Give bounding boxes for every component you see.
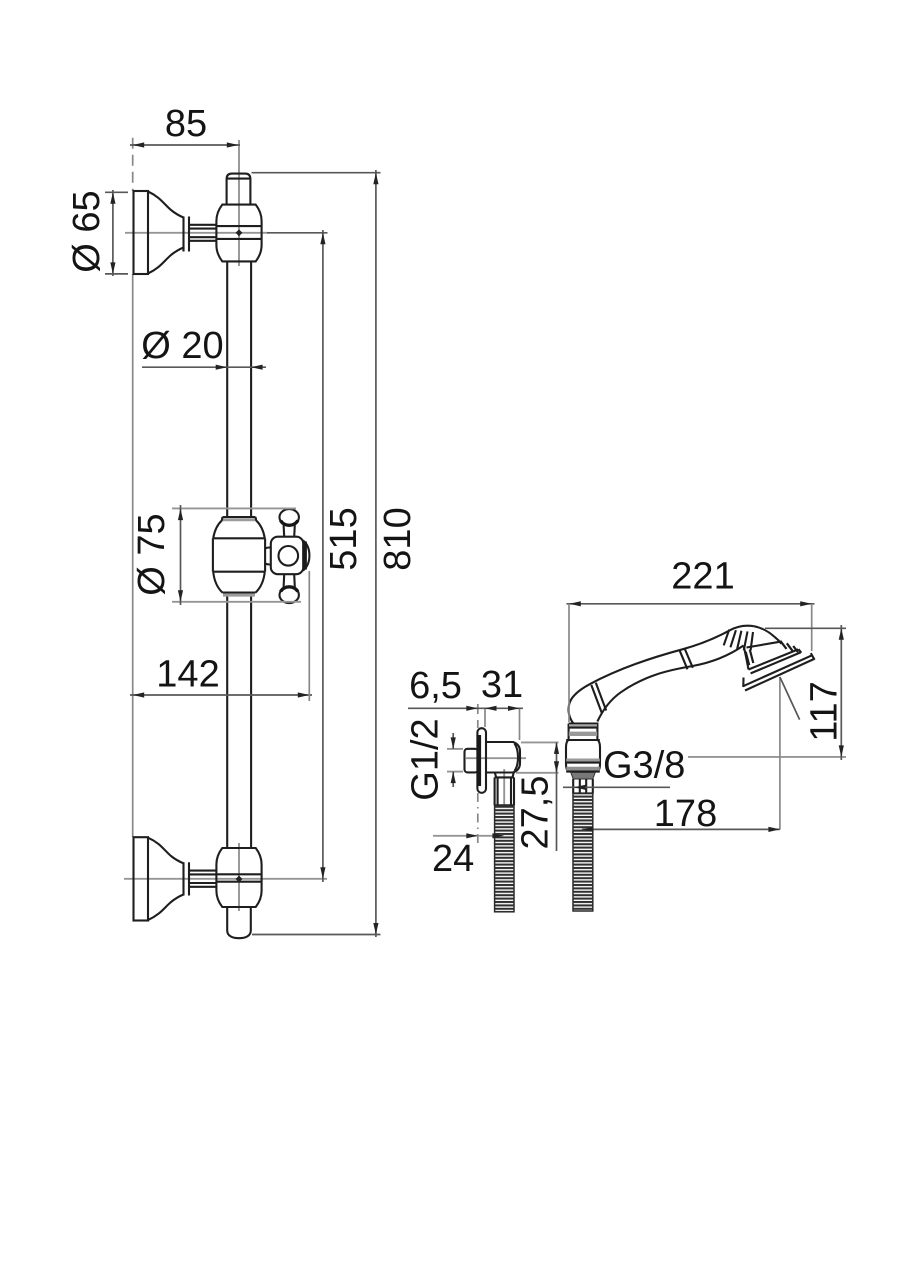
svg-text:515: 515	[323, 507, 365, 570]
svg-text:Ø 20: Ø 20	[141, 325, 223, 367]
svg-text:6,5: 6,5	[409, 665, 462, 707]
svg-text:24: 24	[432, 838, 474, 880]
svg-text:Ø 65: Ø 65	[66, 190, 108, 272]
svg-text:Ø 75: Ø 75	[131, 513, 173, 595]
svg-text:117: 117	[804, 681, 846, 742]
svg-text:85: 85	[165, 103, 207, 145]
svg-text:G3/8: G3/8	[603, 745, 685, 787]
svg-text:27,5: 27,5	[515, 776, 557, 850]
svg-text:178: 178	[654, 793, 717, 835]
svg-text:142: 142	[156, 654, 219, 696]
svg-text:31: 31	[481, 664, 523, 706]
svg-text:221: 221	[671, 556, 734, 598]
svg-text:G1/2: G1/2	[405, 718, 447, 800]
svg-text:810: 810	[377, 507, 419, 570]
